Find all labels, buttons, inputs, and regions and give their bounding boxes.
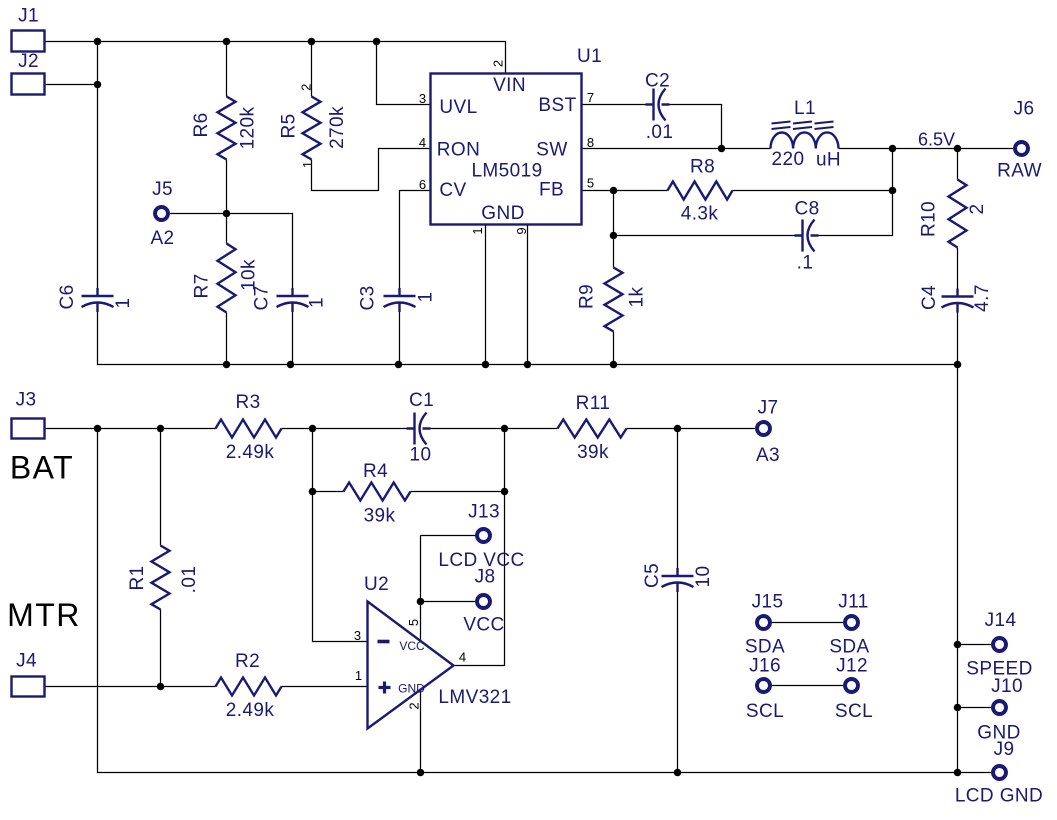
svg-text:C5: C5 xyxy=(642,563,663,588)
wire R6 bottom lead to A2 node xyxy=(226,160,228,214)
junction node R6 top xyxy=(223,38,231,46)
svg-text:C7: C7 xyxy=(252,285,273,310)
svg-text:J6: J6 xyxy=(1014,99,1035,120)
pad J15 xyxy=(757,616,770,629)
wire BST pin 7 to C2 xyxy=(582,104,647,106)
svg-text:J5: J5 xyxy=(152,179,173,200)
capacitor C8 .1 xyxy=(795,220,819,252)
pad J11 xyxy=(845,616,858,629)
svg-text:J10: J10 xyxy=(991,676,1023,697)
wire R10 top lead xyxy=(957,149,959,180)
junction node gnd right xyxy=(954,361,962,369)
svg-text:LCD GND: LCD GND xyxy=(955,786,1043,807)
svg-text:C2: C2 xyxy=(645,71,670,92)
svg-text:R7: R7 xyxy=(192,273,213,298)
wire op-amp output pin 4 riser xyxy=(454,429,505,666)
svg-text:120k: 120k xyxy=(238,107,259,150)
svg-text:R2: R2 xyxy=(235,651,260,672)
capacitor C3 1 xyxy=(384,288,416,312)
wire FB node down xyxy=(613,191,615,236)
junction node J2 join xyxy=(94,81,102,89)
svg-text:10: 10 xyxy=(410,445,432,466)
svg-text:39k: 39k xyxy=(577,442,609,463)
junction node gnd R7 xyxy=(223,361,231,369)
svg-text:J9: J9 xyxy=(994,739,1015,760)
resistor R10 2 xyxy=(949,180,967,248)
svg-text:GND: GND xyxy=(481,203,524,224)
wire J8 to VCC column xyxy=(421,601,477,603)
svg-text:J16: J16 xyxy=(749,656,781,677)
svg-text:4.3k: 4.3k xyxy=(681,204,719,225)
svg-text:U2: U2 xyxy=(364,574,389,595)
capacitor C6 1 xyxy=(82,288,114,312)
svg-text:J8: J8 xyxy=(475,567,496,588)
junction node gnd C7 xyxy=(287,361,295,369)
junction node gnd right bottom xyxy=(954,769,962,777)
svg-text:VCC: VCC xyxy=(463,615,504,636)
svg-text:FB: FB xyxy=(539,180,564,201)
svg-text:SCL: SCL xyxy=(835,701,873,722)
wire input rail down through C6 top xyxy=(97,42,99,293)
svg-text:J7: J7 xyxy=(758,398,779,419)
svg-text:J13: J13 xyxy=(468,502,500,523)
op-amp U1 body: IC LM5019 box xyxy=(431,74,582,225)
svg-text:2.49k: 2.49k xyxy=(226,442,275,463)
junction node R8 right xyxy=(889,187,897,195)
wire C8 left lead xyxy=(614,235,795,237)
junction node C1 R11 out xyxy=(501,425,509,433)
svg-text:R1: R1 xyxy=(127,565,148,590)
junction node BAT left xyxy=(94,425,102,433)
svg-text:.1: .1 xyxy=(797,253,814,274)
junction node J14 tap xyxy=(954,641,962,649)
svg-text:5: 5 xyxy=(406,619,421,626)
junction node gnd C3 xyxy=(395,361,403,369)
svg-text:8: 8 xyxy=(587,135,594,150)
pad J9 xyxy=(993,766,1006,779)
svg-text:J15: J15 xyxy=(752,592,784,613)
svg-text:R4: R4 xyxy=(363,461,388,482)
svg-text:2: 2 xyxy=(407,702,422,709)
pad J16 xyxy=(757,679,770,692)
wire U1 pin 1 to ground xyxy=(485,225,487,365)
junction node R4 right xyxy=(501,488,509,496)
svg-text:R9: R9 xyxy=(577,284,598,309)
junction node 6.5V xyxy=(954,145,962,153)
junction node FB C8 R9 xyxy=(610,232,618,240)
resistor R2 2.49k xyxy=(216,678,282,696)
pad J6 xyxy=(1015,142,1028,155)
junction node R3 C1 xyxy=(309,425,317,433)
svg-text:MTR: MTR xyxy=(7,597,81,633)
junction node R4 left xyxy=(309,488,317,496)
resistor R3 2.49k xyxy=(216,420,282,438)
svg-text:1: 1 xyxy=(307,297,328,308)
svg-text:R5: R5 xyxy=(279,113,300,138)
wire R5 top lead xyxy=(311,42,313,97)
connector J1 xyxy=(12,31,45,52)
svg-text:L1: L1 xyxy=(794,98,816,119)
junction node R1 top xyxy=(157,425,165,433)
svg-text:A2: A2 xyxy=(150,228,174,249)
svg-text:1: 1 xyxy=(355,668,362,683)
svg-text:LMV321: LMV321 xyxy=(438,687,511,708)
wire FB pin 5 xyxy=(582,190,614,192)
junction node R1 R2 xyxy=(157,683,165,691)
svg-text:C1: C1 xyxy=(409,390,434,411)
wire R1 leads xyxy=(160,429,162,687)
pad J14 xyxy=(993,638,1006,651)
svg-text:1: 1 xyxy=(470,227,485,234)
junction node gnd pin9 xyxy=(524,361,532,369)
svg-text:RAW: RAW xyxy=(997,161,1042,182)
svg-text:C4: C4 xyxy=(919,285,940,310)
svg-text:SDA: SDA xyxy=(745,637,785,658)
capacitor C4 4.7 xyxy=(942,289,974,313)
capacitor C1 10 xyxy=(407,413,431,445)
svg-text:6.5V: 6.5V xyxy=(918,130,955,150)
resistor R7 10k xyxy=(218,244,236,313)
wire R6 top lead xyxy=(226,42,228,97)
wire C6 bottom to ground bus; ground bus to right vertical xyxy=(98,312,958,365)
svg-text:VCC: VCC xyxy=(399,639,425,653)
svg-text:J14: J14 xyxy=(985,610,1017,631)
svg-text:2: 2 xyxy=(298,84,313,91)
svg-text:1: 1 xyxy=(113,298,134,309)
wire R4 left lead xyxy=(313,491,344,493)
svg-text:R6: R6 xyxy=(191,112,212,137)
pad J12 xyxy=(845,679,858,692)
wire R4 right lead xyxy=(411,491,505,493)
capacitor C2 .01 xyxy=(646,89,670,121)
wire UVL pin 3 from input rail xyxy=(377,42,431,105)
svg-text:4.7: 4.7 xyxy=(972,284,993,312)
junction node UVL branch xyxy=(373,38,381,46)
wire C5 bottom lead xyxy=(677,592,679,773)
svg-text:GND: GND xyxy=(398,682,425,696)
svg-text:R8: R8 xyxy=(690,157,715,178)
svg-text:6: 6 xyxy=(419,177,426,192)
connector J3 xyxy=(12,419,45,439)
wire C5 top lead xyxy=(677,429,679,573)
wire op-amp pin 2 GND xyxy=(420,691,422,773)
wire R5 bottom to RON pin 4 xyxy=(312,149,431,191)
svg-text:3: 3 xyxy=(419,91,426,106)
svg-text:SCL: SCL xyxy=(746,701,784,722)
op-amp U2 minus input symbol xyxy=(378,640,390,644)
svg-text:9: 9 xyxy=(514,227,529,234)
svg-text:270k: 270k xyxy=(327,106,348,149)
wire J16 to J12 SCL xyxy=(771,685,845,687)
svg-text:J3: J3 xyxy=(16,390,37,411)
svg-text:4: 4 xyxy=(419,135,426,150)
svg-text:2: 2 xyxy=(967,204,988,215)
svg-text:3: 3 xyxy=(354,628,361,643)
wire R3 to C1 xyxy=(282,428,407,430)
wire J3 row BAT to R3 xyxy=(45,428,216,430)
resistor R5 270k xyxy=(303,97,321,160)
junction node VCC J8 xyxy=(417,598,425,606)
resistor R11 39k xyxy=(558,420,627,438)
svg-text:CV: CV xyxy=(439,180,466,201)
pad J10 xyxy=(993,701,1006,714)
svg-text:2.49k: 2.49k xyxy=(226,700,275,721)
wire R2 to op-amp pin 1 xyxy=(282,686,368,688)
svg-text:VIN: VIN xyxy=(493,75,526,96)
svg-text:220: 220 xyxy=(772,149,805,170)
junction node R5 top xyxy=(308,38,316,46)
resistor R8 4.3k xyxy=(668,182,733,200)
op-amp U2 plus input symbol xyxy=(379,682,391,694)
wire R8 leads xyxy=(614,190,893,192)
resistor R4 39k xyxy=(344,483,411,501)
wire R10 bottom to C4 xyxy=(957,248,959,297)
wire node down to R4 left xyxy=(312,429,314,492)
svg-text:uH: uH xyxy=(816,150,841,171)
wire C4 bottom down right side to bottom ground xyxy=(957,309,959,773)
pad J5 xyxy=(155,207,168,220)
junction node A2 / R6-R7 xyxy=(223,210,231,218)
junction node J10 tap xyxy=(954,704,962,712)
junction node SW-L1 out xyxy=(889,145,897,153)
svg-text:J11: J11 xyxy=(838,592,868,613)
pad J13 xyxy=(477,529,490,542)
svg-text:C6: C6 xyxy=(57,284,78,309)
svg-text:J12: J12 xyxy=(836,656,868,677)
wire left vertical and bottom ground bus xyxy=(98,429,993,773)
svg-text:SW: SW xyxy=(536,140,567,161)
resistor R6 120k xyxy=(218,97,236,160)
wire R4 node to op-amp pin 3 xyxy=(313,492,368,642)
svg-text:5: 5 xyxy=(587,176,594,191)
svg-text:R11: R11 xyxy=(576,393,611,414)
svg-text:1: 1 xyxy=(416,292,437,303)
svg-text:R10: R10 xyxy=(919,201,940,237)
svg-text:R3: R3 xyxy=(235,392,260,413)
wire J2 to input rail xyxy=(44,84,98,86)
wire J1 to U1 VIN pin 2 (input rail) xyxy=(44,42,506,74)
svg-text:LM5019: LM5019 xyxy=(471,161,542,182)
junction node J1 rail / left branch xyxy=(94,38,102,46)
wire A2 node from J5 to C7 xyxy=(169,214,293,293)
capacitor C5 10 xyxy=(662,568,694,592)
svg-text:BAT: BAT xyxy=(10,450,74,486)
wire SW pin 8 to L1 xyxy=(582,148,771,150)
svg-text:UVL: UVL xyxy=(439,97,477,118)
op-amp U2 LMV321 triangle xyxy=(368,602,454,729)
svg-text:C8: C8 xyxy=(794,199,819,220)
pad J8 xyxy=(477,595,490,608)
wire C3 bottom lead xyxy=(399,312,401,365)
junction node SW C2 xyxy=(718,145,726,153)
resistor R9 1k xyxy=(605,268,623,332)
wire J15 to J11 SDA xyxy=(771,622,845,624)
svg-text:A3: A3 xyxy=(756,445,780,466)
connector J4 xyxy=(12,677,45,697)
svg-text:J2: J2 xyxy=(18,51,39,72)
wire op-amp pin 5 VCC xyxy=(420,536,422,641)
junction node gnd R9 xyxy=(610,361,618,369)
wire J14 to right vertical xyxy=(958,644,992,646)
svg-text:39k: 39k xyxy=(364,506,396,527)
svg-text:10: 10 xyxy=(693,566,714,588)
junction node FB R8 xyxy=(610,187,618,195)
svg-text:RON: RON xyxy=(437,140,480,161)
svg-text:J1: J1 xyxy=(18,6,39,27)
junction node gnd C5 xyxy=(674,769,682,777)
wire J13 to VCC column xyxy=(421,535,477,537)
svg-text:7: 7 xyxy=(587,90,594,105)
svg-text:.01: .01 xyxy=(646,122,674,143)
wire C2 to SW node xyxy=(669,105,722,149)
wire C1 to R11 xyxy=(431,428,558,430)
junction node R11 J7 C5 xyxy=(674,425,682,433)
wire R7 leads xyxy=(226,214,228,365)
svg-text:C3: C3 xyxy=(358,285,379,310)
wire C8 right to SW-L1 output riser xyxy=(817,149,893,236)
capacitor C7 1 xyxy=(277,288,309,312)
connector J2 xyxy=(12,74,45,95)
svg-text:.01: .01 xyxy=(179,566,200,594)
wire J10 to right vertical xyxy=(958,707,992,709)
resistor R1 .01 xyxy=(152,546,170,610)
wire C7 bottom lead xyxy=(292,312,294,365)
pad J7 xyxy=(757,422,770,435)
wire L1 to 6.5V node and J6 xyxy=(839,148,1014,150)
svg-text:4: 4 xyxy=(459,650,466,665)
wire CV pin 6 to C3 xyxy=(400,191,431,293)
junction node gnd opamp xyxy=(417,769,425,777)
inductor L1 220uH xyxy=(771,132,839,148)
wire R9 leads xyxy=(613,236,615,365)
svg-text:BST: BST xyxy=(538,95,576,116)
svg-text:1k: 1k xyxy=(627,286,648,307)
svg-text:2: 2 xyxy=(491,60,506,67)
svg-text:U1: U1 xyxy=(577,46,602,67)
svg-text:1: 1 xyxy=(300,161,315,168)
wire J4 row MTR to R2 xyxy=(45,686,216,688)
wire U1 pin 9 to ground xyxy=(527,225,529,365)
junction node gnd pin1 xyxy=(482,361,490,369)
wire R11 to J7 pad xyxy=(627,428,756,430)
svg-text:J4: J4 xyxy=(16,651,37,672)
svg-text:SDA: SDA xyxy=(829,637,869,658)
